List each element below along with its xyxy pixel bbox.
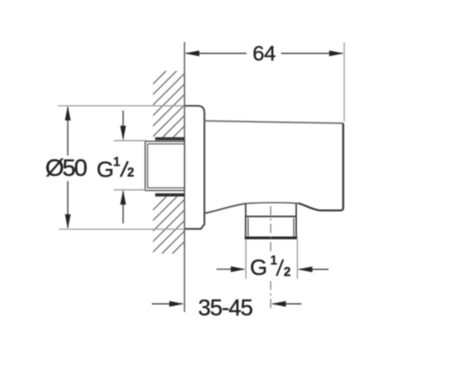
outlet centre line [270, 206, 272, 311]
dim O50 line upper segment [67, 107, 69, 156]
inlet union inner lines [148, 144, 185, 188]
outlet G1/2 left extension line [245, 240, 247, 280]
inlet G1/2 bottom extension line [114, 189, 147, 191]
inlet G1/2 upper arrowhead (down) [120, 126, 126, 141]
inlet union body (white) [145, 141, 184, 190]
outlet nut [245, 216, 297, 237]
dim O50 bottom extension line [59, 228, 185, 230]
dim 64 left arrowhead [185, 51, 200, 57]
outlet nut thick bottom edge [245, 237, 298, 240]
dim 64 right extension line [343, 43, 345, 122]
outlet G1/2 right arrowhead (left) [298, 267, 313, 273]
svg-text:35-45: 35-45 [198, 294, 252, 320]
svg-text:2: 2 [284, 265, 291, 279]
dim O50 top extension line [58, 105, 185, 107]
svg-text:Ø50: Ø50 [45, 155, 87, 182]
inlet G1/2 upper arrow line [122, 111, 124, 140]
outlet thread label slash [277, 259, 284, 276]
inlet thread label slash [121, 161, 128, 177]
dim O50 top arrowhead [65, 106, 71, 121]
inlet G1/2 top extension line [114, 140, 147, 142]
dim O50 line lower segment [67, 181, 69, 228]
outlet G1/2 left arrowhead (right) [231, 266, 246, 272]
inlet seal bar bottom [155, 193, 184, 196]
wall line [184, 42, 186, 312]
body right edge and bottom [298, 123, 343, 210]
dim 35-45 left arrow line [152, 303, 183, 305]
svg-text:64: 64 [253, 42, 276, 66]
inlet G1/2 lower arrow line [122, 191, 124, 223]
body underside arc over outlet [246, 202, 299, 205]
dim 35-45 left arrowhead (right) [169, 301, 184, 307]
svg-text:1: 1 [113, 155, 120, 169]
svg-text:2: 2 [127, 166, 134, 180]
outlet G1/2 right arrow line [299, 268, 329, 270]
outlet G1/2 left arrow line [217, 268, 245, 270]
dim 35-45 right arrowhead (left) [271, 301, 286, 307]
svg-text:1: 1 [270, 254, 277, 268]
flange outline [185, 106, 205, 229]
svg-text:G: G [250, 255, 268, 280]
wall hatching lower patch [141, 168, 195, 285]
dim 35-45 right arrow line [273, 303, 302, 305]
dim 64 right arrowhead [329, 51, 344, 57]
dim 64 line right segment [281, 52, 343, 54]
dim 64 line left segment [186, 52, 247, 54]
inlet G1/2 lower arrowhead (up) [120, 190, 126, 205]
body underside left curve [204, 204, 245, 214]
outlet G1/2 right extension line [296, 240, 298, 280]
wall hatching upper patch [141, 42, 195, 170]
body top edge [204, 121, 343, 123]
dim O50 bottom arrowhead [65, 214, 71, 229]
svg-text:G: G [97, 157, 115, 182]
inlet seal bar top [155, 137, 184, 140]
outlet tube sides [246, 204, 297, 217]
